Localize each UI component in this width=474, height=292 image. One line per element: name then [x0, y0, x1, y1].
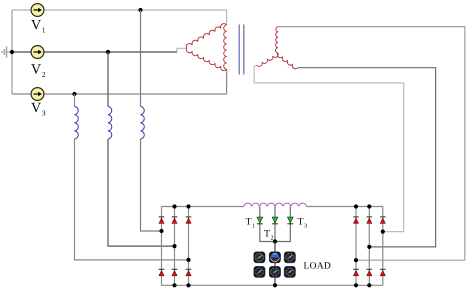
wire star right to bridge2 leg2 — [298, 68, 436, 247]
thyristor T2 — [272, 217, 278, 224]
wire V3 line — [12, 93, 227, 95]
transformer core — [239, 25, 244, 75]
junction bridge1 leg2 mid — [172, 244, 176, 248]
junction bridge1 top leg2 — [172, 204, 176, 208]
diode D5 — [172, 269, 178, 276]
junction bridge1 top leg3 — [186, 204, 190, 208]
wire bridge2 leg3 — [382, 207, 384, 286]
diode D4 — [159, 269, 165, 276]
wire V2 jog to delta left — [177, 48, 187, 52]
label V1 — [31, 20, 45, 33]
diode D1 — [159, 217, 165, 224]
wire phase C feeder (V3) — [75, 94, 189, 260]
wire thyristor taps — [260, 207, 291, 242]
label LOAD — [304, 262, 331, 268]
junction bridge1 leg1 mid — [159, 229, 163, 233]
wire bottom rail — [162, 284, 383, 286]
junction bus-V2-ground — [10, 50, 14, 54]
wire bridge2 leg2 — [368, 207, 370, 286]
wire phase A feeder (V1) — [141, 10, 162, 231]
wire V1 to delta top — [226, 10, 228, 25]
diode D12 — [380, 269, 386, 276]
thyristor T1 — [257, 217, 263, 224]
label V3 — [31, 103, 45, 116]
wire load feed — [274, 242, 276, 286]
label T2 — [264, 230, 273, 240]
wire left bus — [11, 10, 13, 94]
voltage source V1 — [31, 4, 44, 17]
transformer delta winding right — [224, 25, 227, 69]
wire V2 line — [12, 51, 177, 53]
junction bridge1 bottom leg3 — [186, 283, 190, 287]
transformer star winding left — [257, 53, 279, 66]
label V2 — [31, 64, 45, 77]
transformer delta winding bottom — [186, 48, 226, 70]
junction bridge2 leg2 mid — [367, 245, 371, 249]
transformer star winding top — [276, 27, 279, 53]
thyristor T3 — [287, 217, 293, 224]
junction bridge2 leg1 mid — [354, 258, 358, 262]
inductor source (V2 — [108, 107, 112, 139]
wire star left to bridge2 leg3 — [254, 65, 404, 232]
junction V3 phase tap — [72, 92, 76, 96]
inductor source (V3 — [75, 107, 79, 139]
diode D8 — [367, 217, 373, 224]
junction bridge2 bottom leg1 — [354, 283, 358, 287]
junction bridge2 leg3 mid — [381, 230, 385, 234]
junction bridge2 top leg2 — [367, 204, 371, 208]
wire inductor to bridge2 — [307, 206, 383, 208]
voltage source V2 — [31, 46, 44, 59]
inductor source (V1 — [141, 107, 145, 139]
voltage source V3 — [31, 88, 44, 101]
wire bridge1 leg2 — [174, 207, 176, 286]
junction bridge1 leg3 mid — [186, 258, 190, 262]
wire V1 line — [12, 9, 227, 11]
load instrument panel — [254, 252, 296, 278]
transformer star winding right — [277, 53, 297, 69]
ground — [2, 47, 12, 58]
wire phase B feeder (V2) — [108, 52, 175, 246]
junction bridge2 top leg1 — [354, 204, 358, 208]
label T3 — [298, 218, 307, 228]
wire bridge1 leg3 — [188, 207, 190, 286]
wire bridge2 leg1 — [355, 207, 357, 286]
diode D7 — [353, 217, 359, 224]
junction thyristor bus — [273, 239, 277, 243]
inductor interphase — [244, 203, 307, 206]
diode D10 — [353, 269, 359, 276]
junction V2 phase tap — [106, 50, 110, 54]
transformer delta winding top — [186, 24, 226, 49]
wire star top to bridge2 leg1 — [278, 27, 465, 261]
label T1 — [246, 218, 255, 228]
wire delta bottom to V3 — [226, 69, 228, 94]
diode D6 — [186, 269, 192, 276]
junction V1 phase tap — [138, 8, 142, 12]
wire bridge1 leg1 — [161, 207, 163, 286]
junction load bottom — [273, 283, 277, 287]
junction bridge1 bottom leg2 — [172, 283, 176, 287]
diode D11 — [367, 269, 373, 276]
junction bridge2 bottom leg2 — [367, 283, 371, 287]
diode D3 — [186, 217, 192, 224]
diode D9 — [380, 217, 386, 224]
diode D2 — [172, 217, 178, 224]
wire bridge1 top rail — [162, 206, 244, 208]
